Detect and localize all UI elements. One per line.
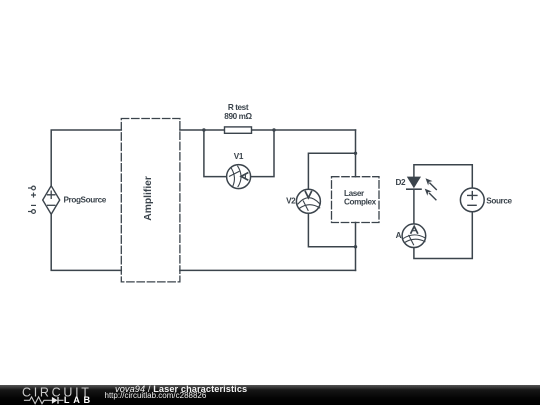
footer bar: [0, 385, 540, 405]
wire from ProgSource top to Amplifier top-left port: [51, 130, 121, 186]
svg-text:Complex: Complex: [344, 198, 377, 207]
photodiode light arrow 2: [425, 189, 436, 200]
photodiode D2: [407, 177, 421, 190]
wire V2 bottom branch: [308, 213, 355, 247]
svg-text:Source: Source: [486, 197, 512, 206]
svg-text:890 mΩ: 890 mΩ: [224, 112, 252, 121]
ammeter V1: [227, 152, 251, 188]
junction left of R test: [202, 128, 205, 131]
wire top rail corner down to V2 junction: [355, 130, 357, 153]
wire Laser Complex bottom port down to bottom rail: [355, 223, 357, 271]
ammeter A: [396, 224, 426, 248]
svg-text:V2: V2: [286, 196, 296, 205]
svg-text:V1: V1: [234, 152, 244, 161]
svg-text:A: A: [396, 231, 402, 240]
footer url text: [105, 392, 207, 400]
svg-text:Amplifier: Amplifier: [143, 176, 154, 221]
ProgSource negative input terminal: [29, 205, 36, 213]
wire V1 left branch: [204, 130, 227, 177]
svg-text:R test: R test: [228, 103, 249, 112]
junction right of R test: [272, 128, 275, 131]
wire Laser Complex top port: [355, 153, 357, 176]
footer title text: [115, 385, 247, 394]
svg-text:D2: D2: [396, 178, 407, 187]
wire from D2 cathode to ammeter A: [413, 189, 415, 224]
wire bottom rail left segment: [51, 214, 121, 270]
ProgSource positive input terminal: [29, 186, 36, 197]
wire bottom rail right segment: [180, 269, 356, 271]
junction V2 bottom: [354, 245, 357, 248]
svg-text:LAB: LAB: [64, 395, 94, 405]
svg-text:ProgSource: ProgSource: [64, 196, 107, 205]
CircuitLab logo: [0, 384, 100, 405]
junction V2 top: [354, 152, 357, 155]
wire right loop bottom: [414, 212, 472, 259]
photodiode light arrow 1: [426, 178, 437, 189]
wire from R test right to top-right corner: [252, 129, 356, 131]
dependent source ProgSource: [43, 186, 60, 214]
laser complex block: [332, 177, 380, 223]
amplifier block: [121, 119, 180, 282]
voltage source Source: [460, 188, 512, 212]
wire V2 top branch: [308, 153, 355, 189]
wire right loop top: [414, 165, 472, 188]
voltmeter V2: [286, 189, 320, 213]
wire from Amplifier top-right port to R test left: [180, 129, 225, 131]
resistor R test: [224, 103, 252, 133]
wire V1 right branch: [251, 130, 274, 177]
